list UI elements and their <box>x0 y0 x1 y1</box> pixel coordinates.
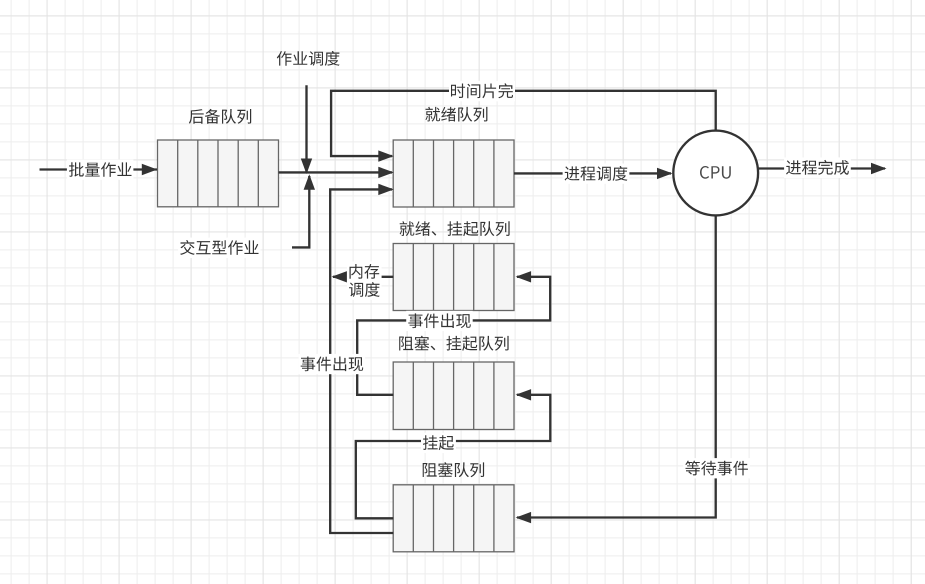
wire 事件出现 阻塞、挂起队列→就绪、挂起队列 <box>357 277 550 395</box>
label 进程完成 <box>784 157 851 178</box>
CPU circle <box>673 131 758 216</box>
label 事件出现 <box>406 311 473 331</box>
wire 交互型作业 edge <box>292 176 309 247</box>
arrowhead into 就绪、挂起队列 right <box>516 271 532 282</box>
wire 作业调度 edge (vertical) <box>305 85 307 172</box>
queue rect 就绪、挂起队列 <box>393 244 514 311</box>
wire 内存调度 就绪、挂起队列→ <box>333 276 393 278</box>
arrowhead into 就绪队列 middle <box>378 167 394 178</box>
queue rect 就绪队列 <box>393 140 514 207</box>
label 阻塞队列 <box>423 462 484 477</box>
label 就绪队列 <box>425 107 487 122</box>
label 等待事件 <box>683 458 750 478</box>
arrowhead 进程完成 <box>871 163 887 174</box>
arrowhead into CPU <box>657 168 673 179</box>
label 就绪、挂起队列 <box>400 221 510 236</box>
label 进程调度 <box>563 164 630 184</box>
arrowhead 交互型作业 up <box>304 174 315 190</box>
arrowhead into 就绪队列 top <box>378 150 394 161</box>
label 时间片完 <box>449 81 515 101</box>
wire 批量作业 edge <box>40 168 158 170</box>
arrowhead 作业调度 down <box>301 159 312 175</box>
arrowhead into 阻塞队列 right <box>516 512 532 523</box>
queue rect 阻塞队列 <box>393 485 514 552</box>
arrowhead into 后备队列 <box>142 164 158 175</box>
wire 时间片完 CPU→就绪队列 <box>331 91 716 156</box>
arrowhead into 就绪队列 bottom <box>378 184 394 195</box>
wire 进程完成 CPU→ <box>758 167 885 169</box>
wire 等待事件 CPU→阻塞队列 <box>517 214 716 517</box>
label 挂起 <box>421 433 456 453</box>
label 批量作业 <box>67 160 133 180</box>
wire 事件出现 阻塞队列→就绪队列 <box>330 189 393 533</box>
label 阻塞、挂起队列 <box>399 336 508 351</box>
wire 进程调度 就绪队列→CPU <box>514 172 671 174</box>
label 后备队列 <box>189 109 251 124</box>
label CPU <box>700 166 731 179</box>
label 交互型作业 <box>178 238 260 258</box>
wire 后备队列→就绪队列 <box>279 171 392 173</box>
label 作业调度 <box>277 51 340 66</box>
label 内存调度 (two lines) <box>347 261 382 300</box>
queue rect 后备队列 <box>158 140 279 207</box>
wire 挂起 阻塞队列→阻塞、挂起队列 <box>356 395 551 519</box>
label 事件出现 <box>299 354 366 374</box>
queue rect 阻塞、挂起队列 <box>393 362 514 430</box>
arrowhead 内存调度 left <box>332 271 348 282</box>
arrowhead into 阻塞、挂起队列 right <box>516 389 532 400</box>
